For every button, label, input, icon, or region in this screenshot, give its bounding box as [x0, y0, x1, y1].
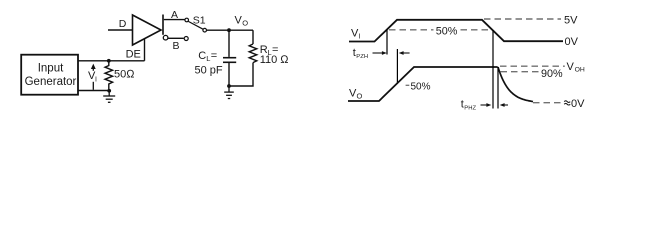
marker: tPZH start at VI 50%: [386, 30, 388, 55]
marker: tPHZ end at VO 90%: [497, 67, 499, 109]
switch S1 open contact (B): [184, 37, 188, 41]
junction: resistor bottom: [107, 89, 111, 93]
driver U1 output bar: [162, 15, 164, 35]
wire: CL bottom: [228, 63, 230, 86]
svg-text:V: V: [567, 61, 575, 73]
50% leader dash (VO): [406, 84, 410, 86]
driver U1 triangle: [133, 15, 162, 45]
svg-text:0V: 0V: [571, 98, 585, 110]
svg-text:110 Ω: 110 Ω: [260, 54, 290, 66]
svg-text:50Ω: 50Ω: [114, 68, 135, 80]
svg-text:OH: OH: [575, 67, 585, 74]
switch S1 pole contact (A): [185, 18, 189, 22]
wire: S1 to VO node: [207, 29, 254, 31]
svg-text:I: I: [359, 34, 361, 41]
dashed 50% level (VI): [389, 29, 492, 31]
svg-text:t: t: [353, 47, 356, 59]
wire: output B: [168, 37, 184, 39]
ground (load side): [224, 86, 234, 99]
wire: DE riser: [144, 39, 146, 61]
node VO junction: [227, 28, 231, 32]
svg-text:D: D: [119, 18, 127, 30]
source arrow VI: [91, 64, 96, 90]
arrow: tPZH right: [373, 51, 387, 55]
svg-text:5V: 5V: [564, 15, 578, 27]
svg-text:B: B: [173, 40, 180, 52]
resistor RL: [249, 44, 257, 63]
switch S1 common contact: [203, 28, 207, 32]
marker: tPZH end at VO 50%: [396, 49, 398, 84]
svg-text:O: O: [242, 19, 248, 28]
waveform VO trace: [348, 67, 498, 101]
svg-text:C: C: [198, 50, 206, 62]
label ~0V: [564, 101, 570, 103]
wire: RL branch riser: [252, 30, 254, 44]
svg-text:S1: S1: [193, 15, 206, 27]
label VI (input voltage): [88, 70, 97, 84]
arrow: tPZH left: [399, 51, 410, 55]
dashed VOH level: [500, 65, 565, 67]
svg-text:0V: 0V: [565, 36, 579, 48]
svg-text:50%: 50%: [436, 25, 458, 37]
svg-text:A: A: [171, 9, 178, 21]
resistor 50ohm: [105, 61, 113, 91]
label VO (waveform): [349, 87, 363, 100]
waveform VI trace: [349, 20, 563, 42]
svg-text:O: O: [357, 92, 363, 101]
svg-text:Generator: Generator: [25, 76, 77, 88]
wire: RL bottom to ground bus: [229, 63, 253, 86]
ground (input side): [103, 91, 115, 103]
wire: generator output (top): [78, 60, 145, 62]
inversion bubble (B output): [163, 35, 168, 40]
capacitor CL: [223, 58, 236, 63]
marker: tPHZ start at VI 50%: [492, 30, 494, 108]
svg-text:DE: DE: [126, 48, 141, 60]
label VI (waveform): [351, 28, 361, 41]
label VOH: [567, 61, 585, 74]
dashed 90% level: [501, 71, 540, 73]
svg-text:t: t: [461, 98, 464, 110]
wire: VO node down to CL: [228, 30, 230, 57]
wire: output A: [164, 19, 185, 21]
dashed 5V level: [484, 18, 561, 20]
svg-text:PZH: PZH: [356, 54, 368, 60]
label tPHZ: [461, 98, 477, 111]
junction: resistor top: [107, 59, 111, 63]
wire: D input: [108, 29, 133, 31]
svg-text:I: I: [95, 77, 97, 84]
svg-text:50 pF: 50 pF: [195, 65, 223, 77]
switch S1 lever: [188, 21, 203, 29]
waveform VO decay curve: [498, 67, 533, 102]
arrow: tPHZ right: [481, 103, 492, 107]
svg-text:90%: 90%: [541, 68, 563, 80]
label CL value: [195, 50, 223, 77]
label tPZH: [353, 47, 368, 60]
wire: generator return (bottom): [78, 90, 110, 92]
svg-text:50%: 50%: [411, 82, 431, 93]
arrow: tPHZ left: [500, 103, 508, 107]
junction: load ground node: [227, 84, 231, 88]
svg-text:PHZ: PHZ: [464, 105, 476, 111]
label RL value: [260, 44, 290, 66]
label VO (circuit): [235, 15, 249, 28]
dashed ~0V level: [533, 102, 561, 104]
input generator box: [21, 55, 78, 95]
svg-text:Input: Input: [38, 63, 64, 75]
svg-text:=: =: [211, 50, 217, 62]
svg-text:V: V: [235, 15, 243, 27]
